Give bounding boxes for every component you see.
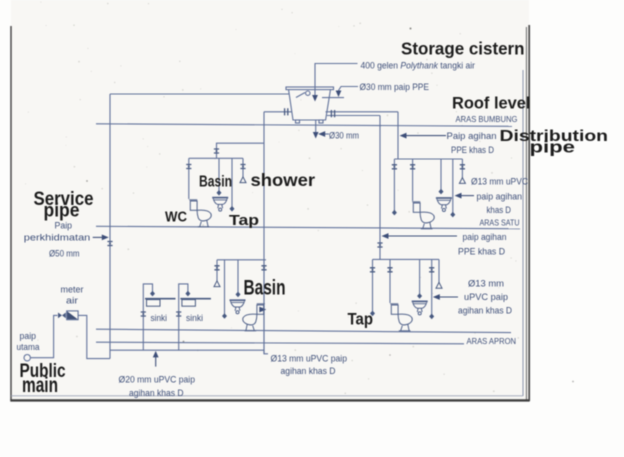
svg-text:khas D: khas D: [487, 205, 512, 215]
svg-text:air: air: [66, 296, 78, 306]
svg-text:sinki: sinki: [151, 313, 168, 323]
svg-text:utama: utama: [17, 342, 40, 352]
svg-text:Basin: Basin: [199, 174, 232, 191]
svg-text:Paip agihan: Paip agihan: [447, 131, 497, 141]
svg-text:PPE khas D: PPE khas D: [451, 145, 494, 155]
svg-text:main: main: [22, 374, 58, 397]
svg-text:perkhidmatan: perkhidmatan: [24, 233, 91, 243]
svg-text:paip: paip: [20, 331, 37, 341]
svg-text:pipe: pipe: [530, 138, 576, 157]
svg-text:Ø30 mm paip PPE: Ø30 mm paip PPE: [360, 82, 430, 92]
svg-text:Storage cistern: Storage cistern: [401, 39, 525, 59]
svg-text:pipe: pipe: [44, 201, 80, 222]
svg-text:Tap: Tap: [229, 213, 259, 229]
svg-text:agihan khas D: agihan khas D: [458, 306, 512, 316]
svg-text:agihan khas D: agihan khas D: [129, 388, 184, 398]
svg-text:ARAS BUMBUNG: ARAS BUMBUNG: [456, 114, 518, 124]
svg-text:Ø30 mm: Ø30 mm: [329, 131, 359, 141]
svg-text:Ø13 mm uPVC paip: Ø13 mm uPVC paip: [271, 354, 348, 364]
svg-text:Ø13 mm uPVC: Ø13 mm uPVC: [471, 177, 528, 187]
svg-text:400 gelen Polythank tangki air: 400 gelen Polythank tangki air: [361, 61, 476, 71]
svg-text:Paip: Paip: [55, 221, 73, 231]
svg-text:Ø50 mm: Ø50 mm: [49, 249, 80, 259]
svg-text:ARAS SATU: ARAS SATU: [480, 218, 520, 228]
svg-text:Ø13 mm: Ø13 mm: [468, 279, 504, 289]
svg-text:paip agihan: paip agihan: [463, 232, 507, 242]
svg-text:ARAS APRON: ARAS APRON: [467, 336, 517, 346]
svg-text:agihan khas D: agihan khas D: [281, 366, 336, 376]
svg-text:WC: WC: [165, 210, 187, 226]
svg-text:Ø20 mm uPVC paip: Ø20 mm uPVC paip: [119, 374, 196, 384]
svg-text:shower: shower: [251, 170, 316, 190]
svg-text:meter: meter: [61, 285, 84, 295]
svg-text:Tap: Tap: [348, 311, 374, 329]
svg-text:Basin: Basin: [244, 277, 286, 300]
svg-text:paip agihan: paip agihan: [477, 192, 523, 202]
svg-text:PPE khas D: PPE khas D: [458, 247, 505, 257]
svg-text:Roof level: Roof level: [452, 94, 531, 113]
svg-text:sinki: sinki: [186, 313, 203, 323]
svg-text:uPVC paip: uPVC paip: [464, 292, 508, 302]
